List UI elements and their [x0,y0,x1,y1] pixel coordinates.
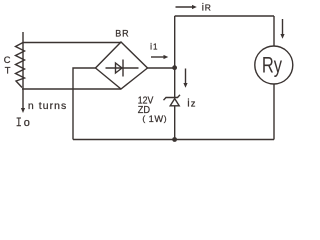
svg-text:R: R [205,3,211,13]
svg-text:i: i [202,3,204,14]
svg-text:): ) [164,113,167,123]
svg-text:C: C [4,55,11,65]
svg-text:i: i [150,42,152,53]
svg-text:1W: 1W [149,114,164,124]
svg-text:T: T [5,66,11,76]
svg-text:n turns: n turns [28,100,67,112]
svg-text:z: z [191,98,196,109]
svg-text:o: o [24,117,30,129]
svg-text:(: ( [142,113,145,123]
svg-text:1: 1 [153,43,158,52]
svg-text:Ry: Ry [262,53,282,78]
svg-text:i: i [187,97,189,109]
svg-text:BR: BR [115,29,129,39]
